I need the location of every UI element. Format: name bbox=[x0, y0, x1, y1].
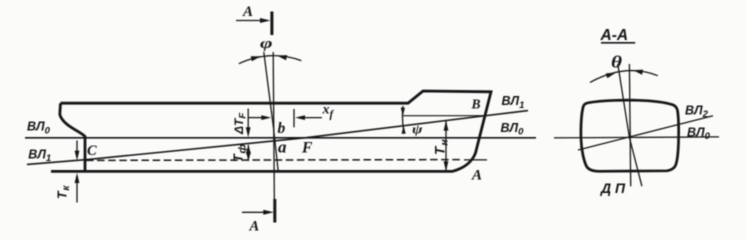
svg-text:А-А: А-А bbox=[600, 27, 629, 44]
svg-text:φ: φ bbox=[260, 36, 273, 52]
point A tick at bow bbox=[464, 159, 487, 161]
section waterline VL0 bbox=[554, 137, 719, 138]
svg-text:ψ: ψ bbox=[412, 121, 423, 136]
phi angle arc bbox=[239, 56, 301, 64]
phi arc arrowheads bbox=[251, 56, 261, 61]
svg-text:A: A bbox=[249, 218, 260, 234]
vertical centerline bbox=[629, 64, 630, 186]
A-A underline bbox=[601, 42, 635, 44]
section waterline VL2 tilted bbox=[578, 116, 713, 150]
T_k dimension (stern draft) bbox=[76, 141, 78, 152]
section hull outline bbox=[581, 100, 679, 171]
svg-text:a: a bbox=[278, 138, 287, 157]
svg-text:A: A bbox=[471, 167, 482, 183]
DP tilted line bbox=[618, 64, 642, 186]
phi tilted axis bbox=[264, 52, 278, 171]
top section arrow bbox=[236, 20, 261, 22]
hull side view outline bbox=[61, 91, 492, 171]
T_f dimension bbox=[247, 145, 249, 161]
keel baseline bbox=[51, 170, 453, 173]
section line A-A vertical bbox=[273, 52, 274, 222]
theta angle arc bbox=[590, 71, 658, 83]
waterline VL1 main (trimmed) bbox=[27, 111, 528, 165]
svg-text:F: F bbox=[301, 139, 313, 156]
section mark top bar bbox=[270, 12, 273, 36]
x_f dimension bbox=[248, 117, 262, 119]
section mark bottom bar bbox=[273, 199, 276, 223]
svg-text:θ: θ bbox=[611, 52, 623, 71]
psi reference horizontal line bbox=[403, 115, 485, 117]
waterline VL0 main bbox=[25, 137, 536, 139]
svg-text:b: b bbox=[278, 120, 286, 137]
dashed baseline bbox=[86, 159, 460, 162]
hull stern edge bbox=[60, 103, 85, 171]
psi angle arc bbox=[402, 106, 403, 131]
T_n dimension (bow draft) bbox=[445, 121, 447, 171]
svg-text:Д П: Д П bbox=[600, 180, 626, 196]
svg-text:C: C bbox=[87, 143, 97, 159]
svg-text:B: B bbox=[471, 97, 481, 112]
svg-text:A: A bbox=[242, 4, 253, 20]
bottom section arrow bbox=[242, 211, 264, 213]
delta T_F dimension bbox=[247, 109, 249, 129]
